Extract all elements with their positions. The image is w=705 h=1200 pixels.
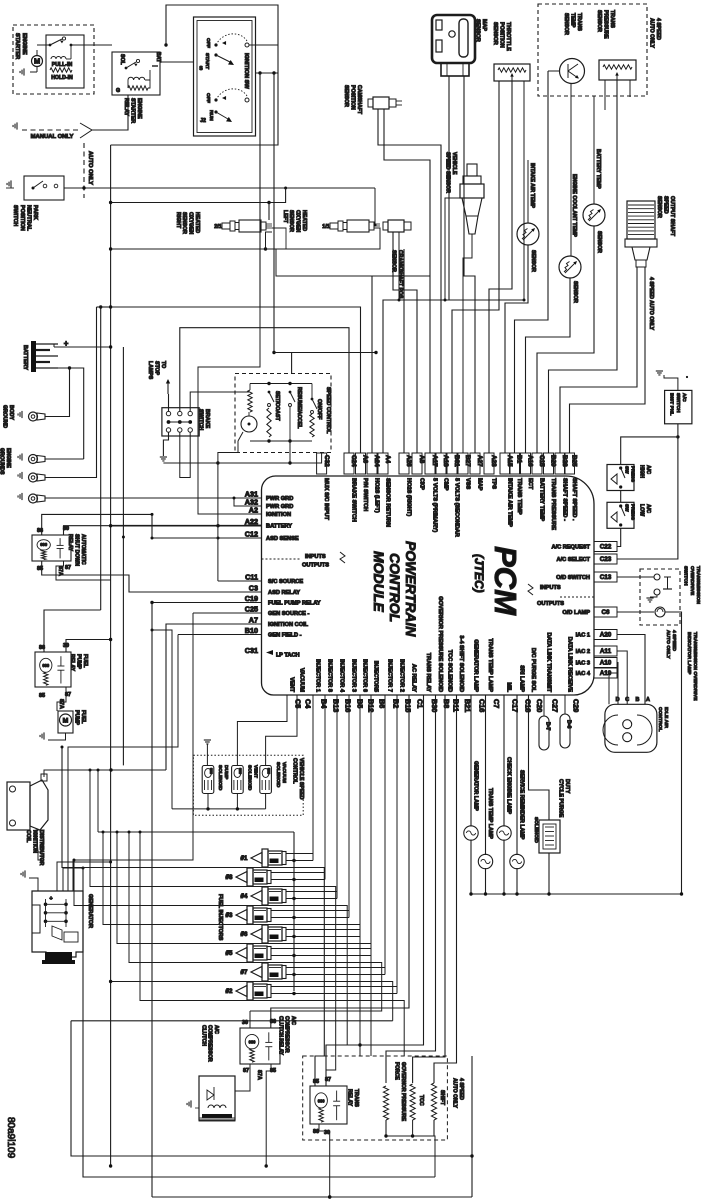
svg-text:TRANS: TRANS — [609, 10, 615, 28]
svg-text:TRANS TEMP LAMP: TRANS TEMP LAMP — [487, 638, 493, 692]
svg-text:OUTPUT SHAFT: OUTPUT SHAFT — [669, 196, 675, 237]
duty cycle purge solenoid — [529, 695, 550, 820]
wire P N switch to A6 — [64, 187, 375, 189]
OD lamp — [617, 611, 654, 613]
svg-text:POSITION: POSITION — [498, 22, 504, 48]
pin C32 — [317, 453, 327, 474]
svg-text:SOL: SOL — [119, 54, 125, 65]
wire B10 gen field — [178, 634, 262, 636]
generator output wires — [57, 862, 111, 891]
svg-text:C24: C24 — [350, 455, 357, 467]
svg-text:INJECTOR5: INJECTOR5 — [372, 661, 378, 692]
shift resistor — [431, 1083, 436, 1120]
pin B28 — [555, 453, 565, 474]
svg-text:SOLENOID: SOLENOID — [246, 765, 252, 791]
output shaft wires — [636, 267, 638, 270]
svg-text:DATA LINK RECEIVE: DATA LINK RECEIVE — [566, 637, 572, 692]
svg-text:O/D SWITCH: O/D SWITCH — [556, 575, 590, 581]
svg-text:DATA LINK TRANSMIT: DATA LINK TRANSMIT — [545, 632, 551, 692]
mid trunk 217 — [217, 463, 219, 581]
svg-text:#5: #5 — [226, 950, 233, 957]
svg-text:DISTRIBUTOR: DISTRIBUTOR — [38, 830, 44, 866]
engine ground wire 1 — [45, 458, 84, 460]
fuel injector #4 — [251, 891, 262, 902]
wire C19 fuel pump relay — [152, 602, 262, 604]
svg-text:CONTROL: CONTROL — [292, 758, 298, 784]
svg-text:HIGH: HIGH — [639, 465, 645, 478]
svg-text:SWITCH: SWITCH — [675, 393, 681, 413]
svg-text:VENT: VENT — [253, 765, 259, 778]
trans relay — [310, 1086, 347, 1124]
svg-text:ON/OFF: ON/OFF — [316, 399, 322, 420]
wire B12 to injector #6 — [286, 695, 360, 930]
svg-text:B: B — [635, 697, 639, 703]
wire IAT to A15 — [505, 245, 528, 453]
svg-text:SWITCH: SWITCH — [683, 566, 689, 586]
wire A17 5v primary — [384, 160, 430, 453]
svg-text:TRANS: TRANS — [576, 13, 582, 31]
ground AC switch — [656, 371, 663, 375]
wire battery temp to C15 — [537, 226, 594, 453]
pin A15 — [500, 453, 510, 474]
wire stair 6 — [129, 832, 382, 1011]
svg-text:C29: C29 — [572, 699, 581, 712]
svg-text:B31: B31 — [453, 455, 460, 467]
bottom rail 3 — [152, 1196, 472, 1198]
data link connector D-6 — [560, 714, 570, 748]
trunk x124 — [122, 347, 124, 765]
svg-text:LEFT: LEFT — [282, 210, 288, 224]
svg-text:OVERDRIVE: OVERDRIVE — [689, 566, 695, 596]
pin A10 — [594, 658, 617, 668]
svg-text:COMPRESSOR: COMPRESSOR — [207, 1025, 213, 1062]
pin A26 — [399, 453, 409, 474]
body ground lug — [29, 412, 38, 421]
svg-text:IGNITION SW: IGNITION SW — [243, 53, 249, 89]
wire B8 governor solenoid — [386, 695, 436, 1083]
svg-text:INTAKE AIR TEMP: INTAKE AIR TEMP — [529, 163, 535, 208]
svg-text:RELAY: RELAY — [347, 1089, 353, 1107]
fuel injector #1 — [251, 853, 262, 864]
svg-text:D/C PURGE SOL: D/C PURGE SOL — [530, 648, 536, 693]
svg-text:IGNITION: IGNITION — [32, 830, 38, 853]
ignition switch double box — [194, 17, 256, 136]
wire MAP return bus to A4 — [383, 76, 449, 453]
svg-text:POWERTRAIN: POWERTRAIN — [403, 541, 419, 637]
svg-text:INJECTOR 4: INJECTOR 4 — [338, 659, 344, 693]
wire C12 asd sense — [152, 537, 262, 539]
right bottom vertical — [471, 1056, 473, 1197]
svg-text:PUMP: PUMP — [74, 710, 80, 726]
svg-text:FORCE: FORCE — [394, 1062, 400, 1080]
svg-text:(JTEC): (JTEC) — [472, 554, 486, 593]
svg-text:C23: C23 — [600, 556, 612, 563]
wire stair 5 — [117, 832, 371, 1056]
svg-text:000: 000 — [266, 768, 270, 774]
wire TPS to B31 — [452, 81, 499, 453]
pin C6 — [594, 607, 617, 617]
generator — [32, 891, 83, 957]
svg-text:HOLD-IN: HOLD-IN — [51, 75, 73, 81]
distributor ignition coil — [7, 782, 30, 830]
svg-text:SENSOR: SENSOR — [596, 10, 602, 32]
svg-text:GEN FIELD -: GEN FIELD - — [268, 633, 302, 639]
wire stair 4 — [103, 832, 360, 1045]
svg-text:CONTROL: CONTROL — [387, 553, 403, 622]
speed control feed wire — [274, 353, 292, 374]
bottom rail 1 — [71, 1021, 472, 1156]
svg-text:CAMSHAFT: CAMSHAFT — [356, 85, 362, 115]
wire C4 to vacuum solenoid — [266, 695, 297, 766]
wire ac clutch to rail — [265, 1120, 267, 1166]
svg-text:A/C: A/C — [645, 465, 651, 474]
pin A17 — [425, 453, 435, 474]
svg-text:INJECTOR 8: INJECTOR 8 — [326, 659, 332, 692]
svg-text:SHAFT SPEED .: SHAFT SPEED . — [571, 478, 577, 521]
svg-text:INTAKE AIR TEMP: INTAKE AIR TEMP — [506, 478, 512, 527]
engine starter dashed enclosure — [13, 25, 94, 94]
svg-text:C15: C15 — [538, 455, 545, 467]
svg-text:SPEED: SPEED — [663, 196, 669, 214]
svg-text:PULL-IN: PULL-IN — [52, 62, 73, 68]
vacuum solenoid — [260, 766, 272, 794]
fuel pump relay wires — [66, 640, 111, 653]
svg-text:TPS: TPS — [490, 478, 496, 489]
svg-text:B16: B16 — [344, 699, 353, 712]
svg-text:86: 86 — [270, 1019, 276, 1025]
svg-text:AUTOMATIC: AUTOMATIC — [80, 534, 86, 565]
fuel injector #2 — [236, 986, 247, 997]
svg-text:1/1: 1/1 — [322, 224, 330, 230]
svg-text:INJECTOR 1: INJECTOR 1 — [314, 659, 320, 692]
svg-text:GROUND: GROUND — [2, 405, 8, 428]
svg-text:B15: B15 — [404, 699, 413, 712]
starter inner box — [46, 35, 84, 88]
svg-text:SENSOR: SENSOR — [288, 210, 294, 232]
svg-text:SENSOR RETURN: SENSOR RETURN — [384, 478, 390, 527]
wire shaft speed plus to B25 — [570, 267, 646, 453]
wire shaft speed minus to B28 — [560, 267, 637, 453]
battery temp wires — [593, 96, 595, 204]
svg-text:TEMP: TEMP — [570, 13, 576, 28]
MAP sensor connector body — [432, 15, 475, 63]
pin B25 — [565, 453, 575, 474]
svg-text:A4: A4 — [384, 455, 391, 464]
svg-text:IDLE AIR: IDLE AIR — [663, 707, 669, 728]
svg-text:THROTTLE: THROTTLE — [505, 22, 511, 51]
svg-text:FUEL: FUEL — [82, 654, 88, 668]
injector feed riser — [97, 770, 99, 832]
svg-text:4 SPEED: 4 SPEED — [655, 18, 661, 40]
ground manual only — [13, 122, 17, 129]
svg-text:87: 87 — [243, 1068, 249, 1074]
wire stair 7 — [111, 982, 393, 1021]
OD switch contacts — [654, 574, 660, 580]
output shaft speed sensor — [627, 201, 655, 239]
svg-text:LOW: LOW — [639, 504, 645, 516]
svg-text:BATTERY: BATTERY — [22, 345, 28, 370]
transmission overdrive switch dashed box — [640, 569, 680, 625]
svg-text:COMPRESSOR: COMPRESSOR — [284, 1016, 290, 1053]
svg-text:HO2S (LEFT): HO2S (LEFT) — [373, 478, 379, 513]
svg-text:C22: C22 — [600, 544, 612, 551]
svg-text:B1: B1 — [516, 455, 523, 464]
svg-text:PWR GRD: PWR GRD — [266, 504, 293, 510]
svg-text:OFF: OFF — [205, 38, 211, 48]
pin B1 — [510, 453, 520, 474]
svg-text:GENERATOR: GENERATOR — [87, 894, 93, 928]
svg-text:INJECTOR 7: INJECTOR 7 — [386, 659, 392, 692]
svg-text:SOLENOID: SOLENOID — [275, 762, 281, 788]
wire HO2S right return — [111, 248, 266, 250]
svg-text:INJECTOR 6: INJECTOR 6 — [361, 659, 367, 692]
OD switch wire — [617, 576, 654, 578]
speed control resistor left — [248, 390, 252, 412]
svg-text:STARTER: STARTER — [14, 33, 20, 59]
svg-text:CONTROL: CONTROL — [657, 707, 663, 732]
svg-text:C11: C11 — [245, 573, 258, 582]
speed control output to C32 — [290, 441, 322, 463]
svg-text:INJECTOR 2: INJECTOR 2 — [398, 659, 404, 692]
ON OFF switch — [311, 398, 314, 401]
trans pressure sensor — [599, 60, 636, 80]
svg-text:ENGINE: ENGINE — [136, 98, 142, 119]
svg-text:4 SPEED: 4 SPEED — [671, 630, 677, 651]
wire VSS return — [445, 198, 467, 300]
svg-text:#3: #3 — [226, 912, 233, 919]
wire CKP return — [398, 232, 400, 300]
relay resistor — [128, 86, 148, 90]
svg-text:COIL: COIL — [25, 830, 31, 843]
engine coolant temp sensor — [559, 256, 581, 278]
wire B15 to injector #2 — [271, 695, 397, 987]
svg-text:C25: C25 — [245, 605, 258, 614]
svg-text:RELAY: RELAY — [67, 534, 73, 552]
trans dashed enclosure — [303, 1056, 448, 1140]
pull-in coil — [51, 57, 66, 60]
wire ignition run down — [259, 73, 261, 307]
starter motor M1 — [32, 56, 43, 67]
svg-text:LAMPS: LAMPS — [147, 361, 153, 380]
svg-text:ENGINE: ENGINE — [5, 448, 11, 468]
RESUME ACCEL switch — [289, 391, 292, 394]
svg-text:#8: #8 — [226, 874, 233, 881]
service reminder lamp — [516, 695, 518, 855]
generator lamp — [470, 695, 472, 827]
svg-text:MAP: MAP — [481, 19, 487, 31]
PCM inputs outputs right — [560, 596, 594, 598]
park neutral position switch — [24, 176, 64, 200]
heated oxygen sensor left 1/1 — [330, 223, 338, 229]
svg-text:SHIFT: SHIFT — [439, 1090, 445, 1106]
camshaft position sensor — [373, 97, 389, 109]
svg-text:A: A — [646, 697, 650, 703]
svg-text:INPUTS: INPUTS — [540, 585, 561, 591]
wire OD indicator down — [665, 612, 682, 894]
svg-text:5 VOLTS (SECONDAR: 5 VOLTS (SECONDAR — [453, 478, 459, 537]
AC switch output — [677, 424, 679, 437]
engine ground lug 2 — [29, 473, 38, 482]
pin A6 — [356, 453, 366, 474]
body ground wire — [45, 412, 70, 417]
pin B29 — [544, 453, 554, 474]
engine ground wire 2 — [45, 307, 97, 478]
svg-text:C32: C32 — [323, 455, 330, 467]
svg-text:VENT: VENT — [288, 677, 294, 693]
svg-text:000: 000 — [318, 1098, 326, 1103]
AC high pressure switch — [607, 465, 634, 491]
svg-text:#1: #1 — [241, 855, 248, 862]
svg-text:GENERATOR LAMP: GENERATOR LAMP — [472, 639, 478, 692]
svg-text:ENGINE COOLANT TEMP: ENGINE COOLANT TEMP — [571, 174, 577, 237]
brake switch wires — [168, 394, 170, 411]
wire ECT to A16 — [526, 278, 571, 453]
svg-text:#4: #4 — [241, 893, 248, 900]
svg-text:SOLENOID: SOLENOID — [217, 765, 223, 791]
svg-text:A/C: A/C — [681, 393, 687, 402]
svg-text:C19: C19 — [245, 594, 258, 603]
wire A7 ignition coil — [166, 624, 262, 770]
svg-text:A7: A7 — [249, 616, 258, 625]
svg-text:OFF: OFF — [205, 93, 211, 103]
svg-text:MIL: MIL — [505, 682, 511, 692]
wire trunk111 bottom — [109, 1164, 112, 1167]
svg-text:VACUUM: VACUUM — [281, 762, 287, 783]
svg-text:C27: C27 — [551, 699, 560, 712]
svg-text:SENSOR: SENSOR — [343, 85, 349, 107]
svg-text:C12: C12 — [245, 530, 258, 539]
svg-text:B13: B13 — [332, 699, 341, 712]
ground OD switch — [646, 598, 653, 602]
pin A18 — [436, 453, 446, 474]
svg-text:#2: #2 — [226, 988, 233, 995]
svg-text:TCC SOLENOID: TCC SOLENOID — [446, 650, 452, 692]
vehicle speed sensor — [467, 164, 477, 176]
wire top feed — [111, 5, 278, 145]
pin C15 — [532, 453, 542, 474]
svg-text:A10: A10 — [600, 660, 612, 667]
AC select wire — [617, 437, 678, 559]
data link connector D-7 — [539, 716, 549, 750]
svg-text:OXYGEN: OXYGEN — [295, 210, 301, 232]
wire B13 to injector #8 — [271, 695, 325, 873]
svg-text:B10: B10 — [245, 626, 258, 635]
wire TPS return — [523, 81, 525, 300]
governor pressure force resistor — [383, 1086, 388, 1120]
IAC wires — [617, 635, 645, 705]
solenoid bus return riser — [152, 630, 172, 809]
svg-text:A/C SELECT: A/C SELECT — [556, 557, 590, 563]
wire A22 battery feed — [111, 525, 262, 527]
pin A8 — [412, 453, 422, 474]
wire brake switch to C24 — [180, 328, 349, 453]
svg-text:CLUTCH: CLUTCH — [200, 1025, 206, 1046]
pin B27 — [458, 453, 468, 474]
svg-text:MANUAL ONLY: MANUAL ONLY — [31, 134, 74, 140]
svg-text:C6: C6 — [601, 609, 610, 616]
svg-text:CMP: CMP — [442, 478, 448, 491]
wire A32 tap — [234, 498, 262, 506]
IAT wires — [527, 160, 529, 223]
relay contact — [125, 67, 128, 70]
engine ground lug 1 — [29, 455, 38, 464]
svg-text:PRESS: PRESS — [630, 504, 636, 520]
wire HO2S left signal — [276, 228, 430, 276]
svg-text:SHUT DOWN: SHUT DOWN — [74, 534, 80, 566]
AC compressor clutch — [199, 1076, 235, 1120]
wire relay BAT to ignition — [160, 61, 194, 63]
svg-text:B8: B8 — [442, 699, 451, 708]
svg-text:P/N SWITCH: P/N SWITCH — [362, 478, 368, 511]
svg-text:RUN: RUN — [208, 110, 214, 121]
stop lamps arrow — [167, 380, 169, 394]
svg-text:STOP: STOP — [154, 361, 160, 376]
pin A19 — [594, 668, 617, 678]
wire brake lamp feed — [100, 307, 102, 610]
wire MAP to A27 — [464, 76, 475, 453]
wire stair 1 — [62, 747, 324, 1086]
svg-text:SENSOR: SENSOR — [530, 250, 536, 272]
AC clutch relay wires — [249, 1011, 251, 1028]
svg-text:M: M — [63, 718, 69, 725]
svg-text:OXYGEN: OXYGEN — [188, 212, 194, 234]
trans temp lamp — [485, 695, 487, 855]
engine ground wire 3 to A31 — [45, 497, 262, 499]
svg-text:PARK: PARK — [32, 205, 38, 220]
svg-text:ECT: ECT — [527, 478, 533, 490]
generator ground — [21, 870, 25, 877]
svg-text:PRESS: PRESS — [630, 466, 636, 482]
svg-text:SET/COAST: SET/COAST — [274, 391, 280, 422]
fuel injector #5 — [236, 948, 247, 959]
svg-text:SWITCH: SWITCH — [12, 205, 18, 226]
wire A24 HO2S left — [371, 276, 373, 453]
svg-text:SPEED CONTROL: SPEED CONTROL — [325, 387, 331, 434]
svg-text:ASD RELAY: ASD RELAY — [268, 590, 300, 596]
svg-text:O/D LAMP: O/D LAMP — [562, 610, 590, 616]
svg-text:SOLENOID: SOLENOID — [533, 817, 539, 843]
pin C13 — [594, 572, 617, 582]
battery wires — [54, 346, 111, 348]
svg-text:OUTPUTS: OUTPUTS — [537, 601, 564, 607]
svg-text:INST PNL: INST PNL — [669, 393, 675, 416]
svg-text:AUTO ONLY: AUTO ONLY — [649, 18, 655, 49]
AC switch links — [620, 491, 622, 503]
svg-text:SRI LAMP: SRI LAMP — [518, 665, 524, 692]
svg-text:TO: TO — [160, 361, 166, 368]
pin C22 — [594, 542, 617, 552]
wire B21 shift solenoid — [434, 695, 457, 1083]
svg-text:A17: A17 — [431, 455, 438, 467]
svg-text:INDICATOR LAMP: INDICATOR LAMP — [686, 632, 692, 675]
svg-text:87A: 87A — [58, 699, 64, 709]
starter switch S1 — [49, 44, 52, 47]
vehicle speed control dotted box — [193, 755, 303, 815]
merge arrow — [80, 123, 92, 138]
coil wires — [44, 770, 166, 777]
svg-text:I.P TACH: I.P TACH — [276, 653, 300, 659]
svg-text:C13: C13 — [600, 574, 612, 581]
wire B30 trans relay — [326, 695, 424, 1086]
svg-text:IAC 3: IAC 3 — [576, 661, 590, 667]
svg-text:CLUTCH RELAY: CLUTCH RELAY — [277, 1016, 283, 1056]
wire trans pressure to B29 — [549, 80, 618, 453]
svg-text:B4: B4 — [320, 699, 329, 708]
ground at P N switch — [7, 180, 11, 187]
dump solenoid — [202, 766, 214, 794]
svg-text:PCM: PCM — [488, 546, 523, 616]
svg-text:#7: #7 — [241, 969, 248, 976]
